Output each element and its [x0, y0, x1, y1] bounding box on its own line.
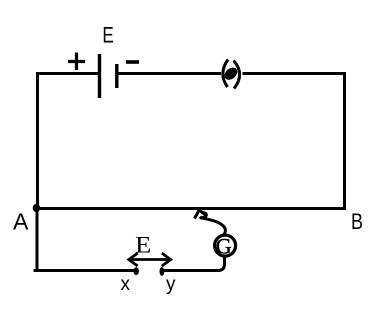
svg-text:A: A	[13, 209, 29, 235]
wire top-left segment	[37, 72, 99, 75]
wire left vertical	[36, 72, 39, 209]
wire lower horizontal to x	[34, 269, 137, 272]
svg-text:x: x	[121, 274, 131, 295]
node A junction dot	[33, 204, 40, 212]
wire right vertical	[343, 72, 346, 210]
terminal x dot	[133, 267, 139, 275]
svg-text:E: E	[102, 24, 113, 49]
plug key K right paren	[234, 61, 240, 89]
wire key to top-right corner	[243, 72, 347, 75]
battery minus sign	[126, 60, 139, 64]
svg-text:y: y	[166, 274, 176, 295]
battery plus sign	[68, 53, 85, 71]
double headed arrow between x and y	[131, 258, 168, 261]
svg-text:B: B	[351, 210, 363, 234]
wire y to galvanometer	[164, 256, 225, 271]
wire battery to key	[117, 72, 221, 75]
jockey squiggle wire from G to AB	[201, 213, 226, 235]
terminal y dot	[160, 267, 165, 276]
svg-text:G: G	[216, 234, 232, 259]
battery short plate	[115, 64, 118, 88]
plug key K plug blob	[222, 65, 240, 82]
wire left lower vertical below A	[36, 207, 39, 271]
plug key K left paren	[223, 60, 228, 88]
battery long plate	[98, 54, 101, 98]
jockey arrowhead touching wire AB	[195, 210, 205, 217]
galvanometer G circle	[215, 235, 236, 256]
wire A to B bottom of loop	[36, 207, 346, 210]
